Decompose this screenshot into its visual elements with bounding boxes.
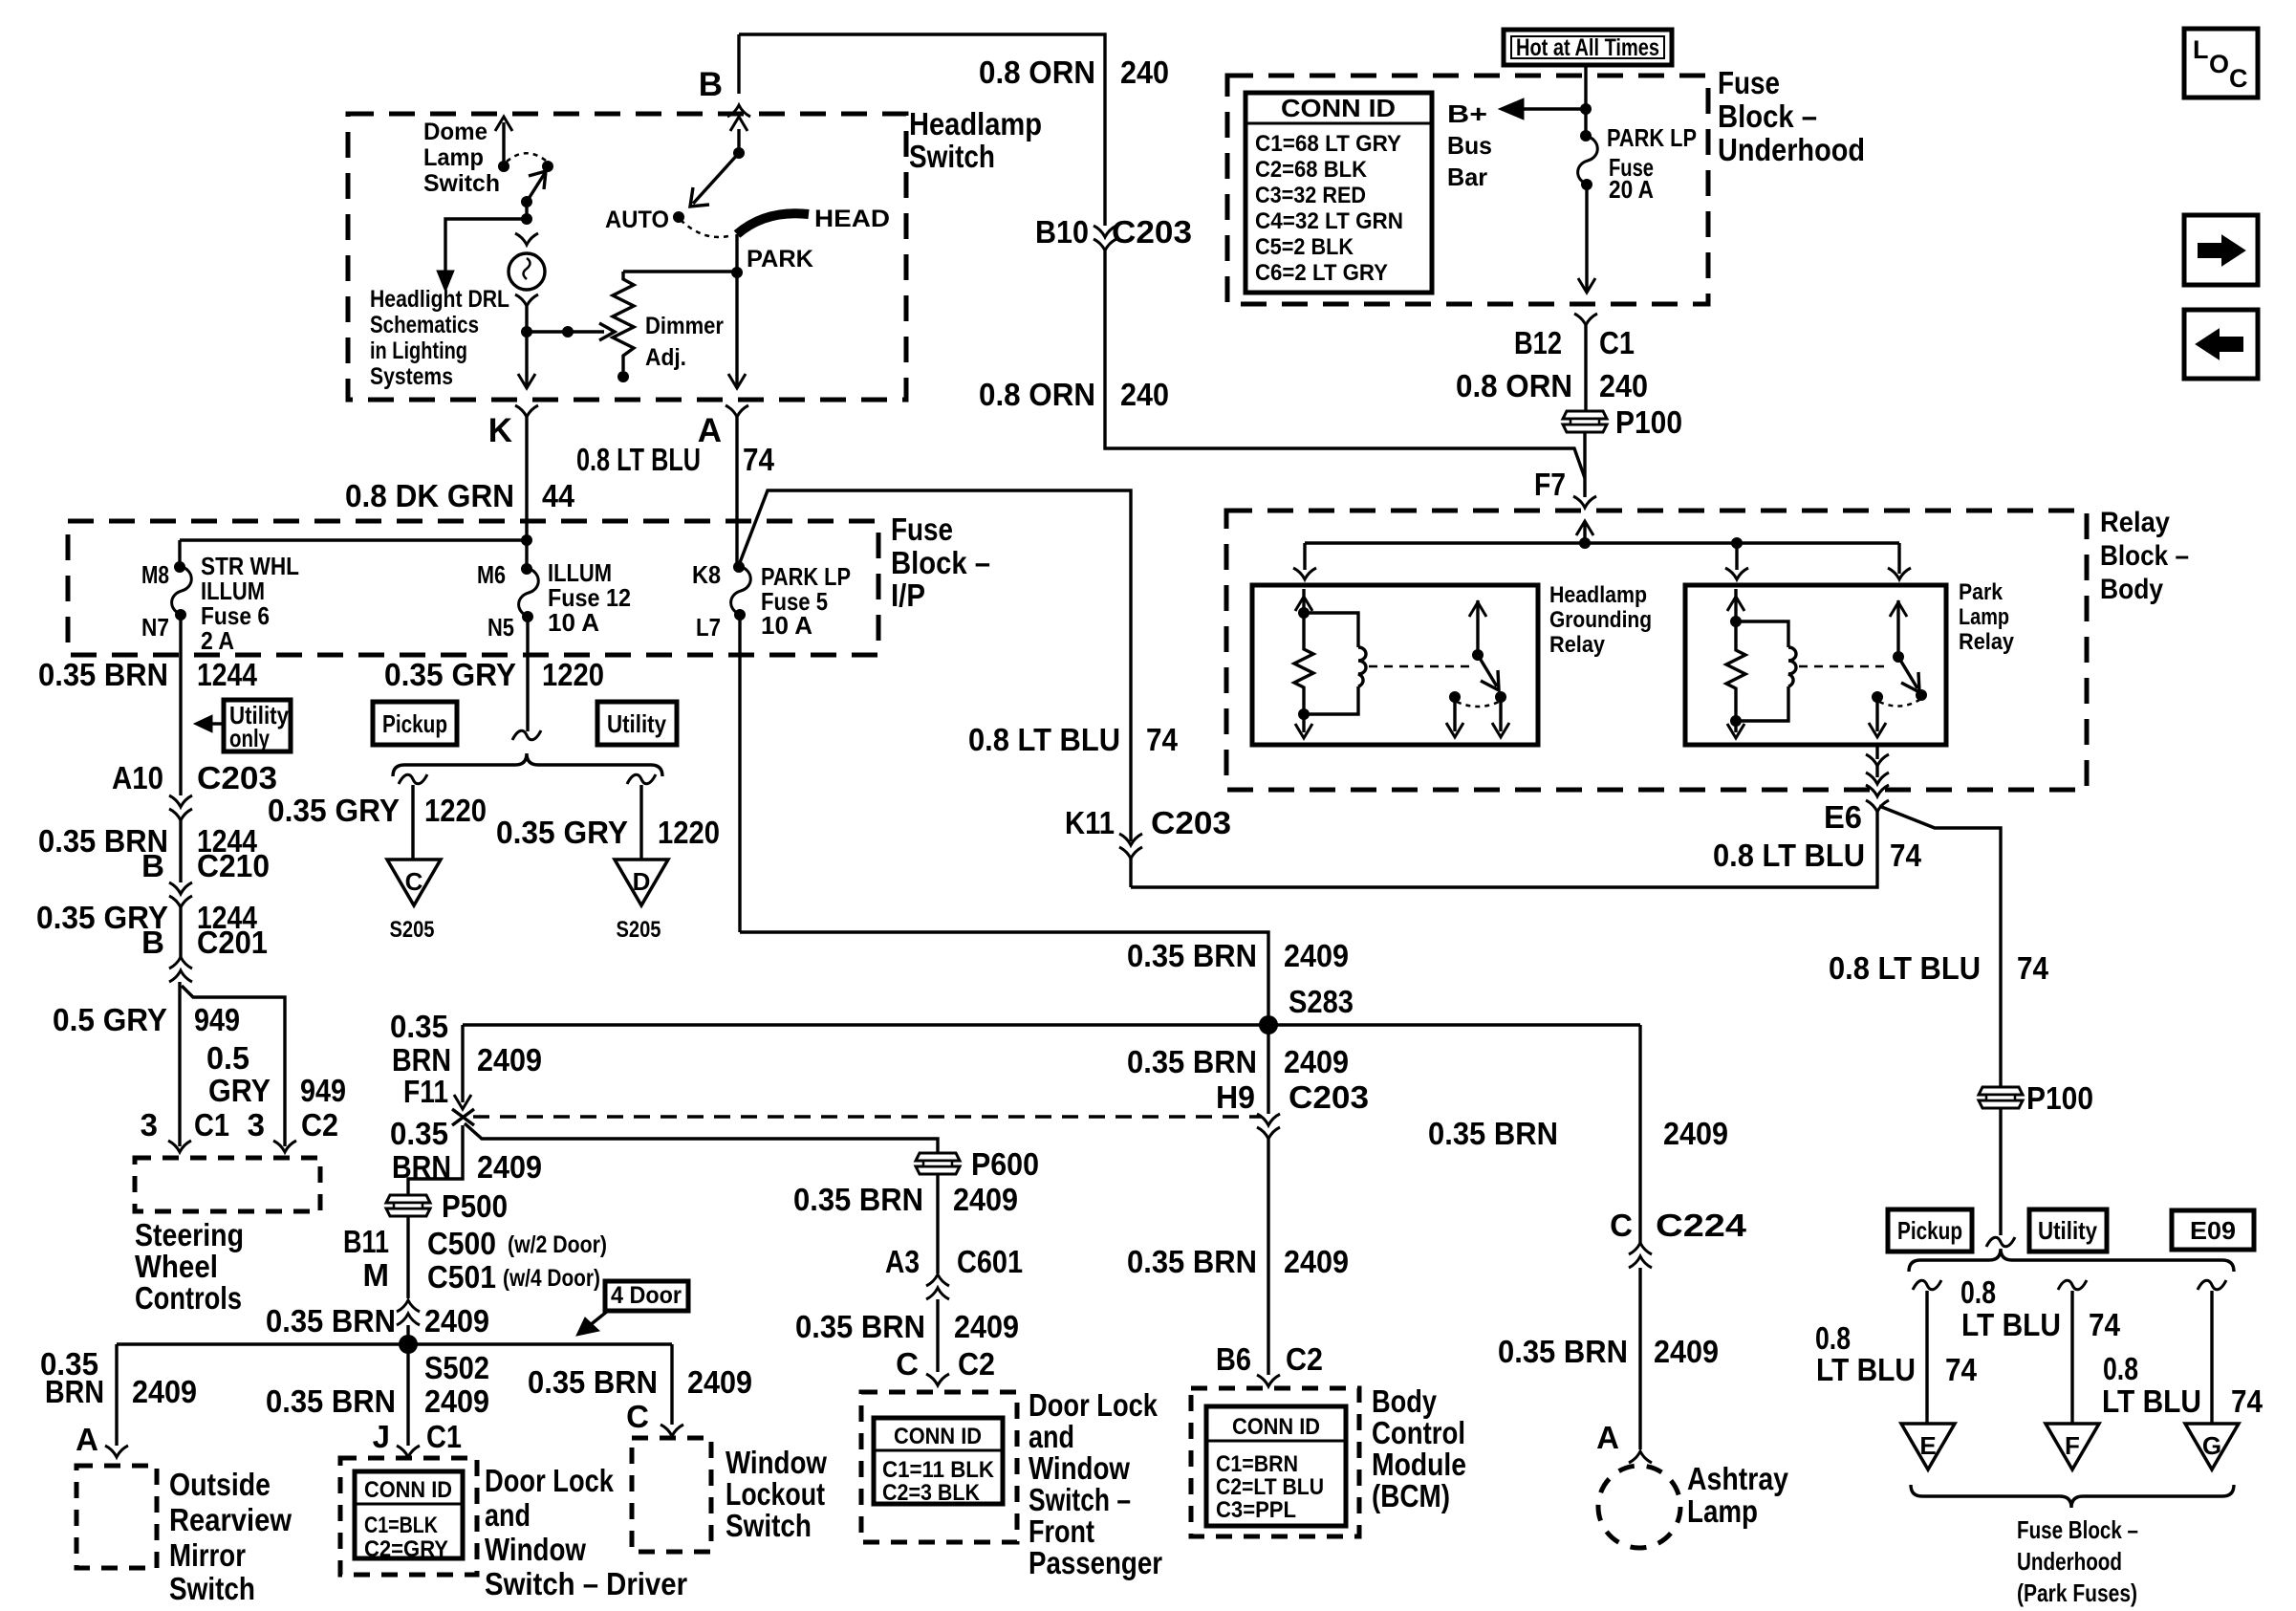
svg-text:0.8: 0.8 <box>1960 1274 1996 1310</box>
svg-text:C501: C501 <box>427 1259 496 1295</box>
svg-text:S205: S205 <box>617 917 661 943</box>
svg-text:C: C <box>1610 1208 1633 1243</box>
svg-text:20 A: 20 A <box>1609 175 1654 204</box>
svg-text:C1: C1 <box>1599 325 1635 360</box>
svg-text:Utility: Utility <box>607 709 666 738</box>
wire K8 feed: diagonal and run to K11 <box>739 490 1131 841</box>
svg-text:B6: B6 <box>1216 1341 1251 1377</box>
svg-text:Relay: Relay <box>1549 632 1606 658</box>
svg-text:74: 74 <box>743 442 775 477</box>
svg-text:Underhood: Underhood <box>1718 132 1865 167</box>
wire F11 to P600 <box>465 1123 938 1153</box>
svg-text:Dimmer: Dimmer <box>645 313 724 339</box>
svg-text:C: C <box>896 1346 919 1382</box>
svg-text:Pickup: Pickup <box>382 709 447 738</box>
svg-text:GRY: GRY <box>208 1073 271 1108</box>
svg-text:Relay: Relay <box>1959 629 2015 655</box>
svg-text:3: 3 <box>141 1107 158 1143</box>
wire to headlight DRL arrow <box>445 219 527 271</box>
svg-text:Lamp: Lamp <box>1687 1493 1758 1529</box>
wire B to fuse/relay: top run <box>739 34 1105 226</box>
wire E6 branch right to P100 <box>1879 806 2001 1087</box>
svg-text:C2: C2 <box>958 1346 995 1382</box>
svg-text:Switch – Driver: Switch – Driver <box>485 1566 687 1601</box>
svg-text:Window: Window <box>726 1445 827 1480</box>
svg-text:C5=2 BLK: C5=2 BLK <box>1255 234 1354 260</box>
svg-text:74: 74 <box>2017 950 2049 986</box>
svg-text:PARK: PARK <box>747 246 813 272</box>
svg-text:C1=BRN: C1=BRN <box>1216 1451 1298 1477</box>
svg-text:949: 949 <box>300 1073 346 1108</box>
svg-text:0.35: 0.35 <box>390 1116 448 1151</box>
svg-text:C: C <box>626 1399 649 1434</box>
svg-text:Relay: Relay <box>2100 507 2170 538</box>
relay rail <box>1305 541 1899 544</box>
headlamp grounding relay <box>1303 543 1306 570</box>
svg-text:Headlamp: Headlamp <box>1549 582 1647 608</box>
svg-text:Utility: Utility <box>2038 1216 2097 1245</box>
svg-text:Switch: Switch <box>423 170 500 197</box>
svg-text:10 A: 10 A <box>548 608 599 637</box>
svg-text:Schematics: Schematics <box>370 312 479 338</box>
svg-text:2409: 2409 <box>477 1042 542 1078</box>
svg-text:Rearview: Rearview <box>169 1502 292 1537</box>
svg-text:0.35 GRY: 0.35 GRY <box>496 815 628 850</box>
svg-text:P500: P500 <box>442 1188 508 1224</box>
svg-text:S502: S502 <box>424 1350 489 1385</box>
svg-text:2409: 2409 <box>424 1383 489 1419</box>
svg-text:G: G <box>2202 1431 2221 1460</box>
svg-text:949: 949 <box>194 1002 240 1037</box>
svg-text:Passenger: Passenger <box>1029 1545 1162 1580</box>
svg-text:0.5 GRY: 0.5 GRY <box>53 1002 167 1037</box>
svg-text:2409: 2409 <box>477 1149 542 1185</box>
svg-text:Control: Control <box>1372 1415 1465 1450</box>
connector A10 C203 <box>179 655 182 795</box>
svg-text:74: 74 <box>2089 1307 2121 1342</box>
node S502 <box>399 1335 418 1354</box>
svg-text:0.8 DK GRN: 0.8 DK GRN <box>345 478 514 513</box>
svg-text:S205: S205 <box>390 917 435 943</box>
brace split <box>393 753 662 776</box>
svg-text:Switch –: Switch – <box>1029 1482 1131 1517</box>
svg-text:Adj.: Adj. <box>645 344 686 371</box>
svg-text:74: 74 <box>1890 838 1922 873</box>
svg-text:0.35 BRN: 0.35 BRN <box>1428 1116 1558 1151</box>
svg-text:A: A <box>76 1422 98 1457</box>
svg-text:C1=11 BLK: C1=11 BLK <box>882 1457 995 1483</box>
door lock and window switch driver dashed box <box>340 1458 477 1575</box>
svg-text:HEAD: HEAD <box>814 206 890 232</box>
svg-text:1220: 1220 <box>658 815 720 850</box>
wire S502 to window lockout switch <box>670 1344 673 1425</box>
svg-text:Grounding: Grounding <box>1549 607 1652 633</box>
svg-text:in Lighting: in Lighting <box>370 337 467 364</box>
ground D S205 <box>627 774 656 784</box>
window lockout switch dashed box <box>632 1438 711 1552</box>
svg-text:0.35 BRN: 0.35 BRN <box>266 1383 396 1419</box>
wire from hot box <box>1584 65 1587 136</box>
svg-text:C224: C224 <box>1656 1208 1747 1243</box>
PARK LP fuse 20A <box>1580 130 1592 142</box>
svg-text:E09: E09 <box>2190 1216 2236 1245</box>
svg-text:Systems: Systems <box>370 363 453 390</box>
HEAD thick arc <box>737 213 809 234</box>
node S283 <box>1259 1015 1278 1034</box>
svg-text:Hot at All Times: Hot at All Times <box>1516 34 1659 61</box>
svg-text:B: B <box>141 925 164 960</box>
svg-text:E6: E6 <box>1824 799 1862 835</box>
svg-text:only: only <box>229 724 270 752</box>
svg-text:Mirror: Mirror <box>169 1537 246 1573</box>
svg-text:Block –: Block – <box>1718 98 1817 134</box>
hot at all times box <box>1504 30 1672 65</box>
fuse block underhood dashed box <box>1227 76 1708 304</box>
svg-text:2409: 2409 <box>1284 1244 1349 1279</box>
relay block body dashed box <box>1226 511 2087 790</box>
wire S502 to outside rearview mirror switch <box>115 1344 118 1446</box>
svg-text:Lamp: Lamp <box>1959 604 2009 630</box>
svg-text:Park: Park <box>1959 579 2004 605</box>
svg-text:N7: N7 <box>141 613 169 642</box>
svg-text:C6=2 LT GRY: C6=2 LT GRY <box>1255 260 1388 286</box>
svg-text:Door Lock: Door Lock <box>485 1463 615 1498</box>
connector P100 <box>1563 411 1607 432</box>
svg-text:4 Door: 4 Door <box>611 1282 682 1309</box>
park lamp relay output exits relay block <box>1875 745 1878 759</box>
PARK contact <box>735 234 738 272</box>
svg-text:0.35 BRN: 0.35 BRN <box>528 1364 658 1400</box>
svg-text:and: and <box>1029 1419 1074 1454</box>
svg-text:and: and <box>485 1497 531 1533</box>
node dome/DRL junction <box>521 213 532 225</box>
svg-text:2 A: 2 A <box>201 626 234 655</box>
headlamp switch dashed box <box>348 114 906 400</box>
park lamp relay <box>1735 543 1738 570</box>
brace park fuses bottom <box>1911 1485 2234 1508</box>
svg-text:Bus: Bus <box>1447 131 1492 160</box>
svg-text:A: A <box>698 412 722 449</box>
feed into relay rail <box>1576 521 1593 535</box>
svg-text:M: M <box>363 1257 390 1293</box>
svg-text:Ashtray: Ashtray <box>1687 1461 1789 1496</box>
park wire down and out <box>735 272 738 388</box>
svg-text:O: O <box>2209 50 2229 78</box>
svg-text:0.8 LT BLU: 0.8 LT BLU <box>968 722 1120 757</box>
svg-text:Switch: Switch <box>169 1571 255 1606</box>
svg-text:I/P: I/P <box>891 577 925 613</box>
svg-text:0.35 BRN: 0.35 BRN <box>795 1309 925 1344</box>
svg-text:BRN: BRN <box>45 1374 104 1409</box>
node K wire into fuse block <box>180 538 527 541</box>
svg-text:C: C <box>2229 64 2248 93</box>
svg-text:B: B <box>141 848 164 883</box>
svg-text:L7: L7 <box>696 613 721 642</box>
svg-text:2409: 2409 <box>687 1364 752 1400</box>
wire A to S283 <box>740 932 1268 1020</box>
svg-text:Underhood: Underhood <box>2017 1547 2122 1576</box>
svg-text:0.35 BRN: 0.35 BRN <box>1498 1334 1628 1369</box>
LOC page icon <box>2184 29 2258 98</box>
svg-text:Switch: Switch <box>909 139 995 174</box>
node AUTO <box>673 211 684 223</box>
next page arrow icon <box>2184 215 2258 285</box>
4 Door tag <box>605 1281 688 1311</box>
svg-text:0.35 GRY: 0.35 GRY <box>384 657 516 692</box>
svg-text:1244: 1244 <box>197 657 258 692</box>
svg-text:C2: C2 <box>1286 1341 1323 1377</box>
svg-text:Body: Body <box>2100 574 2163 605</box>
svg-text:C203: C203 <box>1289 1079 1369 1115</box>
steering wheel controls dashed box <box>135 1158 320 1211</box>
svg-text:0.35: 0.35 <box>390 1009 448 1044</box>
svg-text:0.5: 0.5 <box>206 1040 249 1076</box>
prev page arrow icon <box>2184 310 2258 379</box>
svg-text:B+: B+ <box>1447 99 1487 128</box>
svg-text:0.8 ORN: 0.8 ORN <box>979 377 1095 412</box>
svg-text:Switch: Switch <box>726 1508 812 1543</box>
svg-text:BRN: BRN <box>392 1042 451 1078</box>
connector M C500/C501 <box>397 1300 420 1312</box>
wire B into headlamp switch <box>737 34 740 94</box>
svg-text:2409: 2409 <box>132 1374 197 1409</box>
svg-text:B12: B12 <box>1514 325 1562 360</box>
fuse block I/P dashed box <box>68 521 878 655</box>
svg-text:C1=68 LT GRY: C1=68 LT GRY <box>1255 131 1401 157</box>
svg-text:A3: A3 <box>885 1244 920 1279</box>
svg-text:CONN ID: CONN ID <box>1281 94 1396 122</box>
svg-text:0.8 LT BLU: 0.8 LT BLU <box>1713 838 1865 873</box>
svg-text:J: J <box>373 1419 390 1454</box>
svg-text:LT BLU: LT BLU <box>2102 1383 2201 1419</box>
bottom right: park fuses fan-out <box>1888 1209 1972 1252</box>
svg-text:C203: C203 <box>197 760 277 795</box>
svg-text:CONN ID: CONN ID <box>1232 1414 1320 1440</box>
svg-text:M6: M6 <box>477 560 506 589</box>
svg-text:Block –: Block – <box>2100 540 2189 572</box>
svg-text:0.8 LT BLU: 0.8 LT BLU <box>576 442 701 477</box>
connector F11 <box>461 1025 464 1102</box>
svg-text:240: 240 <box>1599 368 1648 403</box>
utility only box <box>224 700 291 751</box>
svg-text:Steering: Steering <box>135 1217 244 1252</box>
svg-text:C210: C210 <box>197 848 270 883</box>
svg-text:74: 74 <box>1945 1352 1978 1387</box>
svg-text:M8: M8 <box>141 560 169 589</box>
svg-text:C1: C1 <box>426 1419 462 1454</box>
steering wheel controls wires <box>178 982 181 1146</box>
wire S502 to door lock driver switch <box>406 1344 409 1446</box>
svg-text:Dome: Dome <box>423 119 487 145</box>
svg-text:A: A <box>1596 1420 1619 1455</box>
svg-text:C201: C201 <box>197 925 268 960</box>
body control module dashed box <box>1191 1388 1359 1536</box>
wire E6 down to long horizontal <box>1131 812 1877 887</box>
svg-text:Fuse Block –: Fuse Block – <box>2017 1515 2138 1544</box>
node dimmer feed <box>521 326 532 337</box>
svg-text:C1=BLK: C1=BLK <box>364 1513 439 1538</box>
svg-text:0.8 LT BLU: 0.8 LT BLU <box>1829 950 1981 986</box>
svg-text:LT BLU: LT BLU <box>1816 1352 1916 1387</box>
svg-text:B: B <box>699 66 723 103</box>
fuse 6 STR WHL ILLUM <box>178 540 181 567</box>
svg-text:2409: 2409 <box>1663 1116 1728 1151</box>
relay coil resistor <box>1294 613 1313 714</box>
B+ bus bar arrow <box>1522 107 1586 110</box>
svg-text:Fuse: Fuse <box>1718 65 1780 100</box>
svg-text:C2=68 BLK: C2=68 BLK <box>1255 157 1368 183</box>
svg-text:0.35 BRN: 0.35 BRN <box>793 1182 923 1217</box>
svg-text:2409: 2409 <box>953 1182 1018 1217</box>
svg-text:C203: C203 <box>1151 805 1231 840</box>
connector P600 <box>916 1153 960 1174</box>
svg-text:10 A: 10 A <box>761 611 812 640</box>
svg-text:0.8: 0.8 <box>2103 1351 2138 1386</box>
svg-text:F11: F11 <box>403 1074 448 1109</box>
svg-text:(w/4 Door): (w/4 Door) <box>503 1265 600 1292</box>
svg-text:S283: S283 <box>1289 984 1354 1019</box>
switch arm AUTO position <box>693 153 739 204</box>
svg-text:(BCM): (BCM) <box>1372 1478 1450 1513</box>
CONN ID table (fuse block underhood) <box>1245 93 1432 293</box>
connector P500 <box>386 1195 430 1216</box>
svg-text:(w/2 Door): (w/2 Door) <box>508 1231 607 1258</box>
svg-text:C601: C601 <box>957 1244 1023 1279</box>
svg-text:D: D <box>633 867 651 896</box>
svg-text:Module: Module <box>1372 1447 1466 1482</box>
svg-text:N5: N5 <box>487 613 514 642</box>
svg-text:Lockout: Lockout <box>726 1476 825 1512</box>
svg-text:0.35 BRN: 0.35 BRN <box>1127 1044 1257 1079</box>
svg-text:AUTO: AUTO <box>605 207 669 233</box>
svg-text:Lamp: Lamp <box>423 144 484 171</box>
svg-text:K8: K8 <box>692 560 721 589</box>
fuse 12 ILLUM <box>525 540 528 569</box>
svg-text:CONN ID: CONN ID <box>894 1424 982 1449</box>
svg-text:0.8: 0.8 <box>1815 1320 1851 1356</box>
svg-text:3: 3 <box>248 1107 265 1143</box>
svg-text:0.8 ORN: 0.8 ORN <box>979 54 1095 90</box>
svg-text:P100: P100 <box>1615 404 1682 440</box>
svg-text:C2: C2 <box>301 1107 338 1143</box>
svg-text:C2=3 BLK: C2=3 BLK <box>882 1480 981 1506</box>
svg-text:1220: 1220 <box>424 793 487 828</box>
svg-text:C2=LT BLU: C2=LT BLU <box>1216 1474 1324 1500</box>
relay coil <box>1304 613 1366 714</box>
connector P100 (right) <box>1979 1087 2023 1108</box>
resistor dimmer adj <box>613 272 634 371</box>
svg-text:K: K <box>488 412 512 449</box>
svg-text:H9: H9 <box>1216 1079 1255 1115</box>
svg-text:Bar: Bar <box>1447 163 1487 191</box>
ground E <box>1913 1280 1941 1290</box>
svg-text:L: L <box>2193 35 2209 64</box>
lamp (headlamp switch illumination) <box>515 233 538 245</box>
door lock and window switch front passenger dashed box <box>861 1392 1017 1542</box>
fuse 5 PARK LP <box>733 561 745 573</box>
wire F11 to P500 <box>408 1125 463 1195</box>
svg-text:Outside: Outside <box>169 1467 271 1502</box>
svg-text:2409: 2409 <box>954 1309 1019 1344</box>
svg-text:(Park Fuses): (Park Fuses) <box>2017 1578 2137 1607</box>
connector E6 <box>1866 800 1889 812</box>
svg-text:F: F <box>2065 1431 2080 1460</box>
svg-text:C: C <box>405 867 423 896</box>
svg-text:C1: C1 <box>194 1107 229 1143</box>
svg-text:0.35 BRN: 0.35 BRN <box>266 1303 396 1339</box>
svg-text:B10: B10 <box>1035 214 1089 250</box>
svg-text:C3=PPL: C3=PPL <box>1216 1497 1296 1523</box>
dashed arc AUTO to PARK <box>681 220 732 237</box>
svg-text:Headlight DRL: Headlight DRL <box>370 286 509 313</box>
svg-text:LT BLU: LT BLU <box>1961 1307 2061 1342</box>
svg-text:1220: 1220 <box>542 657 604 692</box>
svg-text:Window: Window <box>1029 1450 1130 1486</box>
svg-text:74: 74 <box>2231 1383 2264 1419</box>
brace park fuses top <box>1909 1249 2234 1272</box>
ground G <box>2198 1280 2226 1290</box>
svg-text:44: 44 <box>542 478 575 513</box>
svg-text:Body: Body <box>1372 1383 1438 1419</box>
svg-text:Wheel: Wheel <box>135 1249 218 1284</box>
svg-text:CONN ID: CONN ID <box>364 1477 452 1503</box>
svg-text:C500: C500 <box>427 1226 496 1261</box>
svg-text:C4=32 LT GRN: C4=32 LT GRN <box>1255 208 1403 234</box>
svg-text:Pickup: Pickup <box>1897 1216 1962 1245</box>
svg-text:74: 74 <box>1146 722 1179 757</box>
svg-text:F7: F7 <box>1534 467 1566 502</box>
relay switch <box>1472 649 1484 661</box>
svg-text:0.8 ORN: 0.8 ORN <box>1456 368 1572 403</box>
svg-text:C203: C203 <box>1112 214 1192 250</box>
node: auto/head switch feed dot <box>733 147 745 159</box>
svg-text:Door Lock: Door Lock <box>1029 1387 1159 1423</box>
svg-text:P100: P100 <box>2026 1080 2093 1116</box>
svg-text:240: 240 <box>1120 54 1169 90</box>
svg-text:2409: 2409 <box>1284 1044 1349 1079</box>
svg-text:K11: K11 <box>1065 805 1115 840</box>
ground F <box>2058 1280 2087 1290</box>
svg-text:2409: 2409 <box>424 1303 489 1339</box>
svg-text:B11: B11 <box>343 1224 389 1259</box>
ashtray lamp <box>1598 1466 1680 1548</box>
svg-text:2409: 2409 <box>1654 1334 1719 1369</box>
svg-text:Headlamp: Headlamp <box>909 106 1042 142</box>
svg-text:C2=GRY: C2=GRY <box>364 1536 448 1562</box>
svg-text:P600: P600 <box>971 1146 1039 1182</box>
svg-text:2409: 2409 <box>1284 938 1349 973</box>
svg-text:240: 240 <box>1120 377 1169 412</box>
wire S283 to ashtray lamp <box>1638 1025 1641 1243</box>
svg-text:A10: A10 <box>112 760 163 795</box>
svg-text:0.35 GRY: 0.35 GRY <box>268 793 400 828</box>
svg-text:PARK LP: PARK LP <box>1607 123 1697 152</box>
svg-text:Block –: Block – <box>891 545 990 580</box>
svg-text:Front: Front <box>1029 1513 1094 1549</box>
svg-text:0.35 BRN: 0.35 BRN <box>38 657 168 692</box>
svg-text:Fuse: Fuse <box>891 512 953 547</box>
svg-text:Controls: Controls <box>135 1280 242 1316</box>
svg-text:E: E <box>1919 1431 1936 1460</box>
svg-text:0.35 BRN: 0.35 BRN <box>1127 1244 1257 1279</box>
dashed wire F11 to H9 <box>473 1115 1262 1118</box>
svg-text:Window: Window <box>485 1532 586 1567</box>
node B+ bus bar tap <box>1580 103 1592 115</box>
svg-text:C3=32 RED: C3=32 RED <box>1255 183 1366 208</box>
svg-text:0.35 BRN: 0.35 BRN <box>1127 938 1257 973</box>
ground C S205 <box>399 774 427 784</box>
